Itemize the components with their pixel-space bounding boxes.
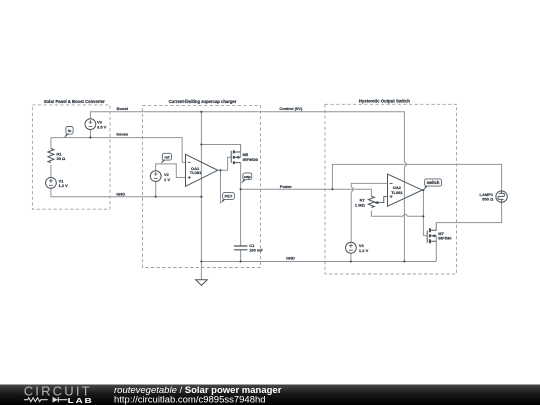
svg-text:Sense: Sense [116,131,129,136]
svg-text:1.2 V: 1.2 V [59,183,69,188]
svg-text:LAB: LAB [68,396,94,404]
svg-text:500 Ω: 500 Ω [482,197,494,202]
svg-text:30 Ω: 30 Ω [57,156,67,161]
svg-text:Control (0V): Control (0V) [279,106,303,111]
svg-text:1 MΩ: 1 MΩ [355,202,366,207]
svg-text:in: in [68,128,72,133]
svg-text:Power: Power [280,184,292,189]
svg-text:Boost: Boost [117,106,129,111]
svg-text:100 mF: 100 mF [249,248,263,253]
svg-text:Solar Panel & Boost Converter: Solar Panel & Boost Converter [44,99,105,104]
svg-text:Hysteretic Output Switch: Hysteretic Output Switch [359,99,410,104]
svg-text:Current-limiting supercap char: Current-limiting supercap charger [169,99,237,104]
svg-text:IRF530: IRF530 [438,236,452,241]
svg-text:1.2 V: 1.2 V [359,248,369,253]
svg-text:IRF9530: IRF9530 [243,157,259,162]
svg-text:cap: cap [244,174,251,179]
svg-text:TL081: TL081 [391,190,403,195]
svg-text:GND: GND [116,191,125,196]
svg-text:TL081: TL081 [190,170,202,175]
svg-text:switch: switch [427,180,440,185]
svg-text:1 V: 1 V [164,177,170,182]
svg-text:PET: PET [225,194,233,199]
svg-text:GND: GND [286,256,295,261]
svg-text:http://circuitlab.com/c9895ss7: http://circuitlab.com/c9895ss7948hd [114,394,266,405]
svg-text:ref: ref [164,154,170,159]
svg-text:3.5 V: 3.5 V [97,124,107,129]
